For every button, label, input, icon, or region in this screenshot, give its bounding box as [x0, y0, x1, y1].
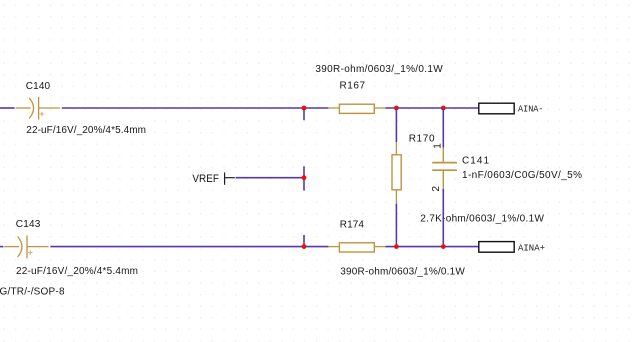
svg-text:R167: R167 [340, 81, 366, 92]
svg-text:2.7K-ohm/0603/_1%/0.1W: 2.7K-ohm/0603/_1%/0.1W [420, 213, 544, 224]
svg-text:2: 2 [431, 186, 442, 192]
power symbol VREF (pin bar and lead) [225, 172, 235, 184]
junction: bottom net / VREF column [302, 244, 307, 249]
svg-text:AINA+: AINA+ [518, 243, 545, 253]
wire: C141 pin 2 down to bottom net [442, 189, 444, 247]
junction: top net / C141 branch [441, 106, 446, 111]
resistor R174 [328, 243, 385, 252]
off-page connector AINA+ [479, 242, 514, 253]
wire: VREF lead to junction column [236, 177, 304, 179]
wire: bottom net segment from C143 to R174 [50, 246, 328, 248]
svg-text:G/TR/-/SOP-8: G/TR/-/SOP-8 [0, 287, 65, 298]
svg-text:AINA-: AINA- [518, 105, 544, 115]
junction: bottom net / C141 branch [441, 244, 446, 249]
svg-text:1-nF/0603/C0G/50V/_5%: 1-nF/0603/C0G/50V/_5% [462, 170, 582, 181]
wire: top net segment from C140 to R167 [62, 107, 329, 109]
wire: top net segment from R167 to AINA- connector [385, 107, 478, 109]
svg-text:R174: R174 [340, 220, 365, 231]
capacitor C143 (polarized) [4, 236, 48, 259]
resistor R167 [328, 104, 385, 113]
capacitor C141 [432, 148, 457, 189]
svg-text:22-uF/16V/_20%/4*5.4mm: 22-uF/16V/_20%/4*5.4mm [26, 125, 146, 136]
junction: top net / R170 branch [394, 106, 399, 111]
wire: vertical stub at VREF junction [303, 166, 305, 190]
wire: bottom net segment from R174 to AINA+ connector [385, 246, 478, 248]
svg-text:C140: C140 [26, 81, 51, 92]
wire: stub above bottom net at VREF column [303, 235, 305, 247]
wire: stub below top net at VREF column [303, 108, 305, 120]
svg-text:C143: C143 [16, 219, 41, 230]
svg-text:R170: R170 [409, 134, 435, 145]
resistor R170 [392, 142, 401, 204]
off-page connector AINA- [479, 103, 514, 114]
svg-text:390R-ohm/0603/_1%/0.1W: 390R-ohm/0603/_1%/0.1W [340, 267, 465, 278]
svg-text:22-uF/16V/_20%/4*5.4mm: 22-uF/16V/_20%/4*5.4mm [16, 266, 138, 277]
wire: branch from top net down to C141 pin 1 [442, 108, 444, 148]
svg-text:C141: C141 [462, 156, 489, 167]
junction: top net / VREF column [302, 106, 307, 111]
wire: bottom net (AINA+) left segment entering C143 pin 1 [0, 246, 3, 248]
svg-text:390R-ohm/0603/_1%/0.1W: 390R-ohm/0603/_1%/0.1W [315, 64, 443, 75]
wire: R170 pin 2 down to bottom net [395, 204, 397, 247]
svg-text:VREF: VREF [192, 173, 219, 185]
wire: branch from top net down to R170 pin 1 [395, 108, 397, 142]
wire: top net (AINA-) left segment entering C140 pin 1 [0, 107, 15, 109]
junction: VREF net [302, 175, 307, 180]
junction: bottom net / R170 branch [394, 244, 399, 249]
svg-text:1: 1 [432, 143, 443, 149]
capacitor C140 (polarized) [16, 97, 61, 120]
